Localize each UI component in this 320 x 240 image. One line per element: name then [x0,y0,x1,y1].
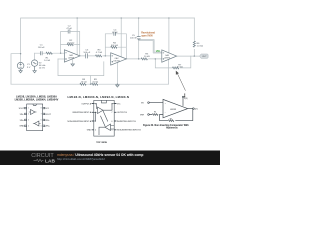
svg-text:NON-INVERTING INPUT B: NON-INVERTING INPUT B [117,130,141,132]
svg-text:LAB: LAB [45,159,55,165]
svg-text:R2: R2 [170,118,172,120]
svg-text:TOP VIEW: TOP VIEW [96,142,108,144]
svg-text:10 kΩ: 10 kΩ [81,81,87,83]
svg-text:100 nF: 100 nF [83,52,90,54]
svg-text:6: 6 [41,120,42,122]
svg-text:LM393: LM393 [164,58,171,60]
svg-text:http://circuitlab.com/c/9487ja: http://circuitlab.com/c/9487janu2k22 [57,157,105,161]
svg-text:100 nF: 100 nF [130,38,137,40]
svg-text:4: 4 [28,126,29,128]
svg-text:2: 2 [95,112,96,114]
svg-text:8: 8 [41,108,42,110]
svg-text:301 kΩ: 301 kΩ [67,42,74,44]
svg-text:GND: GND [87,130,92,132]
svg-text:8: 8 [112,103,113,105]
svg-text:LM358: LM358 [113,61,120,63]
svg-text:Figure 32. Non-Inverting Compa: Figure 32. Non-Inverting Comparator With [143,124,189,127]
svg-text:2OUT: 2OUT [45,114,51,116]
svg-text:2IN−: 2IN− [45,120,50,122]
svg-text:7: 7 [41,114,42,116]
svg-text:2: 2 [28,114,29,116]
svg-text:LM358: LM358 [68,57,75,59]
svg-text:6: 6 [112,121,113,123]
svg-text:VIN: VIN [141,103,144,105]
svg-text:1OUT: 1OUT [18,108,24,110]
svg-text:5: 5 [41,126,42,128]
svg-text:open 0V00: open 0V00 [141,35,153,37]
svg-text:4: 4 [95,130,96,132]
svg-text:1(7): 1(7) [195,109,199,111]
svg-text:INVERTING INPUT B: INVERTING INPUT B [117,121,136,123]
svg-text:LM193: LM193 [170,109,177,111]
svg-text:CIRCUIT: CIRCUIT [31,153,54,159]
svg-text:OUTPUT A: OUTPUT A [81,102,91,105]
svg-text:1.0 kΩ: 1.0 kΩ [197,46,204,48]
svg-text:VREF: VREF [140,114,144,116]
svg-text:Vth: Vth [156,49,161,53]
svg-text:301 kΩ: 301 kΩ [111,45,118,47]
svg-text:100 nF: 100 nF [38,47,45,49]
svg-text:1.0 kΩ: 1.0 kΩ [44,60,51,62]
svg-text:OUTPUT B: OUTPUT B [117,112,127,114]
svg-text:47 pF: 47 pF [112,32,118,34]
svg-text:8(3): 8(3) [184,98,188,100]
svg-text:7: 7 [112,112,113,114]
svg-text:10 kΩ: 10 kΩ [177,67,183,69]
svg-text:4.7 kΩ: 4.7 kΩ [96,52,103,54]
svg-text:Hysteresis: Hysteresis [166,127,178,130]
svg-text:1: 1 [95,103,96,105]
svg-text:GND: GND [19,126,24,128]
svg-text:LM193-N, LM2903-N, LM293-N, LM: LM193-N, LM2903-N, LM293-N, LM393-N [68,95,130,99]
svg-text:1IN+: 1IN+ [20,120,25,122]
svg-text:2IN+: 2IN+ [45,126,50,128]
svg-text:1IN−: 1IN− [20,114,25,116]
svg-text:10 kΩ: 10 kΩ [144,56,150,58]
svg-text:Revolutional: Revolutional [141,31,155,34]
svg-text:9 V: 9 V [27,67,31,69]
svg-text:10 mV: 10 mV [39,67,46,69]
svg-text:OUT: OUT [202,56,207,58]
svg-text:NON-INVERTING INPUT A: NON-INVERTING INPUT A [67,120,91,123]
svg-text:LM358, LM358A, LM2904, LM2904V: LM358, LM358A, LM2904, LM2904V [15,98,59,102]
svg-text:INVERTING INPUT A: INVERTING INPUT A [72,111,91,114]
svg-text:R1: R1 [154,112,156,114]
svg-text:5: 5 [112,130,113,132]
svg-text:1: 1 [28,108,29,110]
svg-text:10 kΩ: 10 kΩ [92,81,98,83]
svg-text:3: 3 [28,120,29,122]
svg-text:47 pF: 47 pF [66,28,72,30]
svg-text:3: 3 [95,121,96,123]
